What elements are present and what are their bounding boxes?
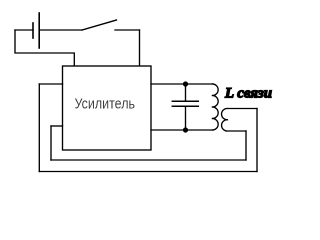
inductor L1 tank coil xyxy=(212,84,218,130)
wire outer feedback loop bottom xyxy=(39,171,257,173)
inductor L2 coupling coil xyxy=(222,108,257,131)
wire battery left segment xyxy=(15,29,33,31)
battery B1 long plate xyxy=(38,13,40,48)
wire tank bottom from amplifier xyxy=(151,129,212,131)
wire switch drop to amplifier top xyxy=(139,30,141,66)
amplifier box U1 xyxy=(63,66,152,150)
wire battery negative drop to amplifier top xyxy=(15,30,74,66)
wire left middle riser xyxy=(50,126,52,160)
battery B1 short plate xyxy=(32,23,34,38)
node junction dot bottom xyxy=(183,127,188,132)
node junction dot top xyxy=(183,81,188,86)
svg-text:L связи: L связи xyxy=(224,86,272,102)
capacitor C1 bottom lead xyxy=(185,106,187,130)
wire left outer riser xyxy=(38,84,40,172)
wire middle feedback loop bottom xyxy=(51,159,246,161)
switch S1 arm xyxy=(82,20,117,30)
capacitor C1 top plate xyxy=(172,100,198,102)
wire right outer riser xyxy=(256,109,258,172)
capacitor C1 bottom plate xyxy=(172,105,198,107)
wire amplifier left input bottom xyxy=(51,125,63,127)
wire tank top from amplifier xyxy=(151,83,213,85)
wire amplifier left input top xyxy=(39,83,62,85)
wire switch right contact xyxy=(115,29,140,31)
capacitor C1 top lead xyxy=(185,84,187,101)
wire battery to switch xyxy=(39,29,82,31)
svg-text:Усилитель: Усилитель xyxy=(75,97,136,113)
wire right middle riser xyxy=(245,131,247,160)
